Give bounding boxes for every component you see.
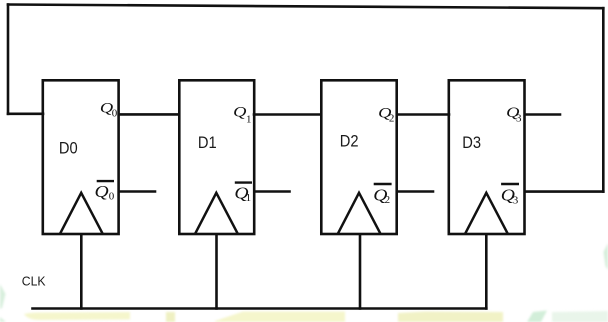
svg-text:2: 2: [385, 194, 391, 206]
svg-text:D2: D2: [340, 133, 359, 151]
label Q3: [506, 103, 522, 124]
clock triangle D0: [60, 193, 103, 234]
wire: CLK drop D0: [80, 235, 83, 309]
wire: Q3 output stub: [525, 113, 560, 116]
wire: CLK drop D3: [485, 235, 488, 309]
background decorations: [0, 243, 608, 322]
svg-text:3: 3: [516, 113, 522, 125]
svg-text:D0: D0: [59, 140, 78, 158]
label Q2: [378, 104, 394, 124]
wire: feedback left vertical: [7, 5, 10, 114]
svg-text:0: 0: [112, 107, 118, 119]
wire: CLK drop D1: [215, 235, 218, 309]
label Q1bar: [234, 183, 252, 205]
clock triangle D3: [465, 193, 508, 234]
wire: D0 input horizontal: [8, 113, 43, 116]
svg-text:CLK: CLK: [22, 274, 46, 288]
wire: Q2bar stub: [397, 190, 433, 193]
flip-flop D2 box: [321, 80, 396, 234]
svg-text:1: 1: [246, 113, 252, 125]
label Q0: [100, 99, 118, 119]
wire: Q1 to D2: [254, 113, 321, 116]
label Q2bar: [373, 184, 391, 206]
svg-text:Q: Q: [233, 103, 246, 120]
svg-text:Q: Q: [95, 182, 109, 201]
wire: Q0 to D1: [119, 113, 179, 116]
label Q3bar: [501, 184, 519, 206]
wire: CLK drop D2: [359, 235, 362, 309]
wire: feedback top horizontal: [8, 5, 603, 9]
label Q1: [233, 103, 251, 126]
clock triangle D2: [338, 193, 381, 234]
flip-flop D1 box: [179, 80, 254, 234]
flip-flop D3 box: [449, 80, 525, 234]
wire: Q1bar stub: [255, 190, 290, 193]
svg-text:D1: D1: [198, 134, 217, 152]
clock triangle D1: [195, 193, 238, 234]
svg-text:1: 1: [246, 192, 252, 204]
label Q0bar: [95, 181, 115, 202]
wire: feedback right vertical: [602, 8, 605, 191]
wire: Q0bar stub: [120, 190, 155, 193]
svg-text:D3: D3: [462, 134, 481, 152]
wire: Q2 to D3: [397, 113, 449, 116]
wire: Q3bar feedback horizontal: [525, 190, 603, 193]
flip-flop D0 box: [43, 80, 119, 234]
svg-text:0: 0: [109, 190, 115, 202]
wire: CLK bus: [33, 307, 487, 310]
svg-text:2: 2: [389, 113, 395, 125]
svg-text:3: 3: [513, 194, 519, 206]
